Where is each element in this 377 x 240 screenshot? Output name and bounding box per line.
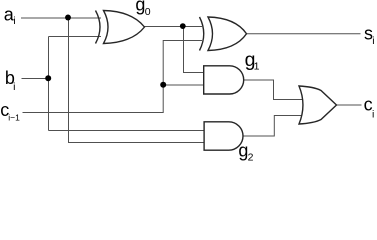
svg-text:1: 1 bbox=[254, 60, 260, 72]
svg-text:i: i bbox=[372, 109, 374, 121]
svg-text:i: i bbox=[372, 35, 374, 47]
svg-text:2: 2 bbox=[248, 152, 254, 164]
svg-text:0: 0 bbox=[145, 6, 151, 18]
svg-text:i: i bbox=[13, 15, 15, 27]
svg-text:i: i bbox=[13, 81, 15, 93]
svg-text:i−1: i−1 bbox=[8, 113, 20, 123]
